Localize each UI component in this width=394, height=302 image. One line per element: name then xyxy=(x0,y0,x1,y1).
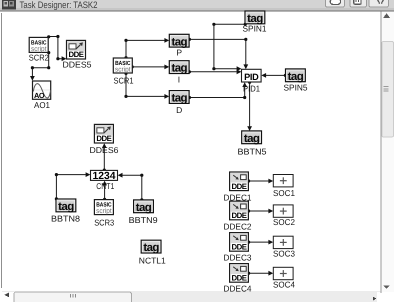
junction dot corner xyxy=(31,66,34,69)
arrowhead into CNT1 right xyxy=(118,173,123,178)
block AO1 xyxy=(33,81,51,100)
junction dot at BBTN9 top xyxy=(140,198,143,201)
horizontal scrollbar right arrow xyxy=(373,297,377,301)
svg-text:BBTN9: BBTN9 xyxy=(129,215,158,225)
svg-text:DDEC2: DDEC2 xyxy=(224,222,252,232)
block DDEC3 xyxy=(230,233,249,252)
arrowhead into AO1 xyxy=(30,76,35,81)
block SCR1 xyxy=(113,58,132,74)
block tag BBTN9 xyxy=(134,200,154,214)
wire BBTN9 to CNT1 xyxy=(122,175,142,200)
junction dot at SCR1 bottom xyxy=(124,72,127,75)
svg-text:DDEC4: DDEC4 xyxy=(224,284,252,294)
svg-text:D: D xyxy=(176,105,182,115)
wire PID1 to BBTN5 xyxy=(249,82,251,126)
svg-text:BBTN8: BBTN8 xyxy=(51,214,80,224)
wire DDEC1 to SOC1 xyxy=(249,180,269,182)
block tag I xyxy=(169,61,189,75)
arrowhead into PID1 top xyxy=(243,64,248,69)
svg-text:DDES5: DDES5 xyxy=(63,60,92,70)
junction dot at tag P right xyxy=(188,38,191,41)
arrowhead into PID1 left lower xyxy=(237,69,242,74)
arrowhead into tag P xyxy=(164,38,169,43)
junction dot at BBTN8 top xyxy=(55,197,58,200)
junction dot at PID1 bottom xyxy=(248,81,251,84)
titlebar button maximize xyxy=(350,0,367,7)
junction dot corner xyxy=(212,23,215,26)
block SOC2 xyxy=(273,205,293,217)
wire SCR1 to tag P xyxy=(126,40,165,58)
arrowhead into BBTN5 top xyxy=(247,126,252,131)
junction dot at SCR2 top-right xyxy=(47,35,50,38)
junction dot at SCR1 right xyxy=(131,65,134,68)
junction dot at SPIN5 left xyxy=(284,74,287,77)
vertical scrollbar down arrow xyxy=(383,285,389,288)
svg-text:SOC4: SOC4 xyxy=(273,280,295,290)
wire CNT1 to DDES6 xyxy=(103,148,105,170)
junction dot corner xyxy=(55,173,58,176)
junction dot corner xyxy=(140,174,143,177)
junction dot at tag I right xyxy=(188,70,191,73)
svg-text:Task Designer: TASK2: Task Designer: TASK2 xyxy=(20,0,98,10)
block tag BBTN5 xyxy=(242,131,262,145)
block SOC1 xyxy=(273,175,293,187)
junction dot at DDEC3 right xyxy=(247,241,250,244)
wire DDEC2 to SOC2 xyxy=(249,210,269,212)
title bar xyxy=(0,0,394,10)
vertical scrollbar up arrow xyxy=(383,13,390,18)
block SOC4 xyxy=(273,267,293,279)
wire SCR2 to AO1 xyxy=(32,52,48,76)
junction dot at SCR1 top xyxy=(124,56,127,59)
junction dot at CNT1 top xyxy=(103,169,106,172)
block tag D xyxy=(169,91,189,105)
block CNT1 xyxy=(91,170,118,182)
svg-text:NCTL1: NCTL1 xyxy=(139,256,166,266)
vertical scrollbar thumb xyxy=(382,41,394,137)
junction dot corner xyxy=(244,38,247,41)
canvas bottom edge xyxy=(2,290,381,293)
block tag NCTL1 xyxy=(141,240,161,254)
junction dot at SCR3 top xyxy=(103,198,106,201)
titlebar bottom divider xyxy=(0,10,394,11)
svg-text:CNT1: CNT1 xyxy=(96,181,114,191)
junction dot corner xyxy=(124,39,127,42)
block SCR3 xyxy=(94,200,113,216)
svg-text:DDEC3: DDEC3 xyxy=(224,253,252,263)
junction dot corner xyxy=(47,66,50,69)
block tag P xyxy=(169,34,189,48)
titlebar button close xyxy=(369,0,389,7)
block DDES6 xyxy=(94,124,113,143)
arrowhead into tag I xyxy=(164,65,169,70)
block DDEC4 xyxy=(230,264,249,283)
block PID1 xyxy=(242,69,262,82)
junction dot at SPIN1 bottom-left xyxy=(244,23,247,26)
block DDEC2 xyxy=(230,201,249,220)
svg-text:BBTN5: BBTN5 xyxy=(238,147,267,157)
wire BBTN8 to CNT1 xyxy=(56,175,85,199)
junction dot corner xyxy=(243,96,246,99)
junction dot corner xyxy=(56,57,59,60)
arrowhead into SOC1 xyxy=(268,179,273,184)
block DDEC1 xyxy=(230,172,249,191)
svg-text:SPIN5: SPIN5 xyxy=(284,83,308,93)
wire SCR3 to CNT1 xyxy=(104,185,106,199)
junction dot corner xyxy=(56,35,59,38)
block tag SPIN1 xyxy=(245,11,265,25)
title bar app icon xyxy=(2,0,16,9)
junction dot at DDEC2 right xyxy=(247,209,250,212)
svg-text:SPIN1: SPIN1 xyxy=(243,24,267,34)
wire tag I to PID1 left xyxy=(189,71,237,73)
svg-text:PID: PID xyxy=(244,72,259,82)
block tag BBTN8 xyxy=(56,199,76,213)
svg-text:I: I xyxy=(178,75,180,85)
horizontal scrollbar left arrow xyxy=(4,292,9,297)
svg-text:SCR3: SCR3 xyxy=(94,218,114,228)
junction dot at DDEC4 right xyxy=(247,272,250,275)
horizontal scrollbar track xyxy=(14,292,377,302)
block DDES5 xyxy=(67,40,86,59)
arrowhead into PID1 left upper xyxy=(237,66,242,71)
arrowhead into SOC4 xyxy=(268,271,273,276)
wire SCR1 to tag I xyxy=(132,66,165,68)
svg-text:SOC2: SOC2 xyxy=(273,217,295,227)
wire SPIN5 to PID1 right xyxy=(266,74,286,76)
arrowhead into PID1 bottom xyxy=(242,82,247,87)
svg-text:DDES6: DDES6 xyxy=(90,145,119,155)
arrowhead into SOC3 xyxy=(268,240,273,245)
svg-text:AO1: AO1 xyxy=(34,100,50,110)
block tag SPIN5 xyxy=(286,69,306,83)
arrowhead into PID1 right xyxy=(261,73,266,78)
block SCR2 xyxy=(29,37,48,53)
wire tag P to PID1 top xyxy=(189,39,246,64)
arrowhead into DDES6 bottom xyxy=(102,143,107,148)
horizontal scrollbar grip xyxy=(70,294,75,298)
svg-text:SCR2: SCR2 xyxy=(29,53,49,63)
svg-text:SOC3: SOC3 xyxy=(273,249,295,259)
horizontal scrollbar thumb xyxy=(14,292,132,302)
junction dot at tag D right xyxy=(188,96,191,99)
wire SCR2 to DDES5 xyxy=(49,37,62,59)
wire SCR1 to tag D xyxy=(126,73,165,96)
block SOC3 xyxy=(273,236,293,248)
scrollbar corner xyxy=(381,292,394,302)
svg-text:SCR1: SCR1 xyxy=(114,76,134,86)
canvas right border xyxy=(380,11,381,292)
junction dot corner xyxy=(212,67,215,70)
vertical scrollbar track xyxy=(381,11,394,302)
canvas left border xyxy=(0,13,3,288)
junction dot at SCR2 bottom xyxy=(47,51,50,54)
wire SPIN1 to PID1 left xyxy=(214,24,245,68)
junction dot at DDEC1 right xyxy=(247,179,250,182)
svg-text:PID1: PID1 xyxy=(243,84,260,94)
titlebar button minimize xyxy=(326,0,345,7)
svg-text:SOC1: SOC1 xyxy=(273,188,295,198)
arrowhead into CNT1 left xyxy=(86,172,91,177)
arrowhead into CNT1 bottom xyxy=(102,181,107,186)
svg-text:AO: AO xyxy=(34,91,45,100)
junction dot corner xyxy=(124,95,127,98)
arrowhead into tag D xyxy=(164,94,169,99)
arrowhead into DDES5 xyxy=(62,56,67,61)
wire tag D to PID1 bottom xyxy=(189,87,245,98)
arrowhead into SOC2 xyxy=(268,209,273,214)
svg-text:P: P xyxy=(176,48,182,58)
wire DDEC4 to SOC4 xyxy=(249,272,269,274)
wire DDEC3 to SOC3 xyxy=(249,241,269,243)
vertical scrollbar grip xyxy=(383,87,388,91)
